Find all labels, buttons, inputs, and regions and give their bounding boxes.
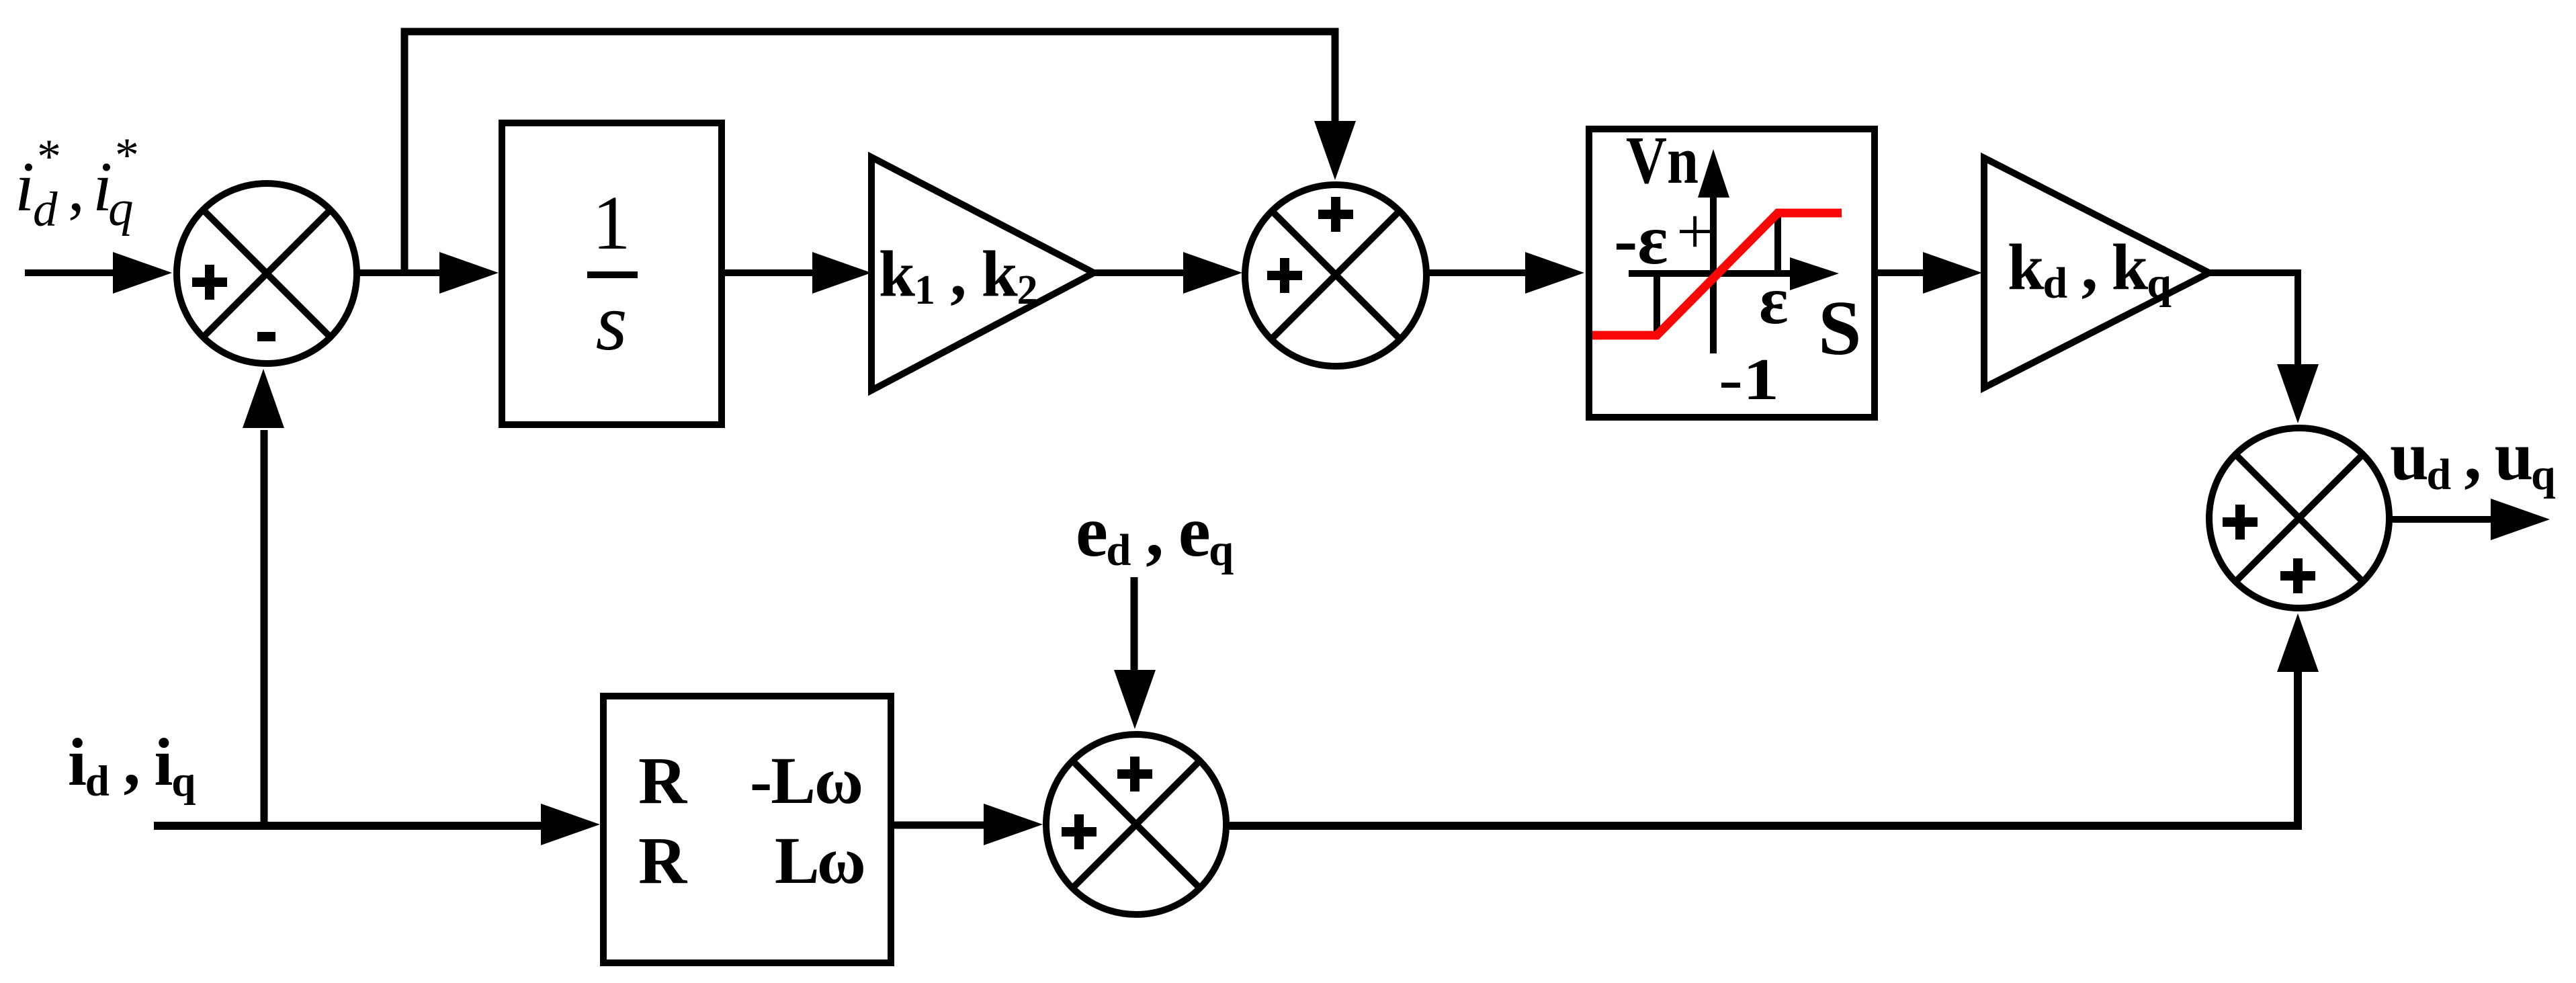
- svg-text:S: S: [1818, 286, 1862, 372]
- plus sign S4 bottom: [2280, 558, 2315, 593]
- wire k1,k2 to summing junction S2: [1094, 252, 1242, 294]
- block saturation: [1589, 122, 1875, 417]
- svg-text:Vn: Vn: [1626, 122, 1699, 198]
- saturation red curve: [1592, 213, 1842, 335]
- svg-text:ud , uq: ud , uq: [2390, 417, 2556, 499]
- svg-text:ε: ε: [1759, 263, 1789, 339]
- svg-text:q: q: [108, 181, 134, 237]
- gain triangle k1,k2: [871, 157, 1094, 390]
- wire top feedback down into S2: [1314, 28, 1356, 181]
- wire integrator to gain k1,k2: [725, 252, 871, 294]
- wire R box to summing junction S3: [894, 804, 1043, 845]
- svg-text:*: *: [37, 130, 61, 183]
- wire top feedback horizontal: [401, 28, 1339, 36]
- wire S2 to saturation block: [1426, 252, 1584, 294]
- plus sign S2 top: [1318, 197, 1353, 232]
- svg-text:s: s: [595, 277, 627, 368]
- svg-text:,: ,: [68, 151, 85, 225]
- wire feedback branch up from node: [401, 28, 409, 276]
- axis Vn vertical: [1710, 195, 1717, 353]
- wire S1 output to integrator: [357, 252, 499, 294]
- svg-text:Lω: Lω: [775, 823, 864, 898]
- svg-text:-ε: -ε: [1614, 200, 1668, 279]
- summing junction S4: [2209, 428, 2389, 608]
- plus sign S3 left: [1062, 814, 1097, 849]
- plus sign S4 left: [2223, 505, 2258, 540]
- tick epsilon upper: [1774, 213, 1781, 273]
- summing junction S1: [177, 183, 357, 364]
- svg-text:*: *: [115, 128, 139, 182]
- svg-text:k1 , k2: k1 , k2: [879, 238, 1037, 313]
- svg-text:i: i: [15, 147, 34, 226]
- minus sign S1 bottom: [257, 332, 275, 341]
- svg-text:R: R: [638, 743, 688, 818]
- wire feedback up to S1 minus input: [243, 369, 284, 825]
- wire S3 long output to S4 bottom: [1226, 613, 2319, 826]
- svg-text:+: +: [1676, 196, 1713, 268]
- gain triangle kd,kq: [1984, 158, 2209, 388]
- block R matrix: [603, 696, 891, 963]
- summing junction S2: [1245, 185, 1426, 366]
- plus sign S1 left: [192, 265, 227, 300]
- summing junction S3: [1046, 734, 1226, 914]
- wire S4 output: [2389, 499, 2550, 540]
- block integrator 1/s: [502, 123, 722, 425]
- wire input arrow to summing junction S1: [25, 252, 172, 294]
- axis S horizontal: [1629, 270, 1801, 277]
- tick -epsilon: [1654, 273, 1660, 335]
- svg-text:-1: -1: [1719, 347, 1779, 413]
- plus sign S2 left: [1267, 258, 1302, 293]
- plus sign S3 top: [1117, 757, 1152, 792]
- svg-text:d: d: [33, 182, 58, 237]
- wire kd,kq apex to S4 (right then down): [2209, 273, 2319, 423]
- svg-text:-Lω: -Lω: [750, 743, 862, 818]
- node input label i*d,i*q: [15, 128, 139, 237]
- svg-text:R: R: [638, 823, 688, 898]
- wire id,iq input line to R box: [154, 804, 600, 845]
- svg-text:1: 1: [593, 180, 631, 265]
- wire saturation to gain kd,kq: [1878, 252, 1982, 294]
- wire ed,eq down into S3: [1114, 577, 1156, 729]
